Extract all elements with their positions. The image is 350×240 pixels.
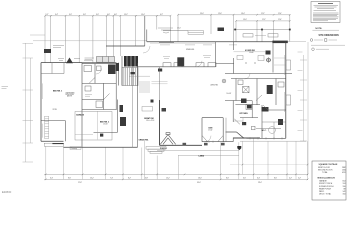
dark door tag left: [44, 49, 51, 53]
svg-text:NOTE:: NOTE:: [315, 28, 322, 30]
stair treads: [122, 68, 138, 86]
svg-text:6'-4": 6'-4": [257, 177, 260, 179]
garage parking rectangle: [75, 112, 112, 141]
svg-text:8'-2": 8'-2": [128, 177, 131, 179]
svg-text:4251: 4251: [342, 172, 346, 174]
den double east wall: [225, 118, 227, 142]
washer dryer units: [97, 57, 115, 63]
posts on south wall: [183, 143, 225, 146]
shower X: [243, 86, 249, 92]
newel post dark: [151, 100, 154, 103]
svg-text:15'-6": 15'-6": [218, 13, 222, 15]
svg-text:DECK / TOTAL: DECK / TOTAL: [319, 193, 331, 196]
porch steps: [146, 147, 166, 154]
svg-text:9'-4": 9'-4": [55, 14, 58, 16]
window seat rects: [142, 107, 153, 112]
storage room walls: [41, 121, 65, 142]
den label: [208, 128, 213, 132]
stoop: [44, 143, 63, 146]
svg-text:16'-4": 16'-4": [241, 13, 245, 15]
hall wall vertical: [138, 63, 216, 147]
lanai edge lines: [157, 151, 239, 156]
window label marks above north wall: [84, 59, 115, 61]
stair west wall: [121, 56, 123, 86]
left wing north wall: [41, 62, 82, 64]
left dimension line outer: [2, 35, 46, 162]
svg-text:W.I.C.: W.I.C.: [262, 130, 267, 132]
dark label above right wall: [272, 41, 287, 44]
note box header: [318, 3, 333, 5]
svg-text:E168 D: E168 D: [2, 190, 11, 194]
bedroom3 label: [53, 90, 62, 92]
bay bumps east: [286, 60, 291, 105]
den window ticks: [209, 141, 213, 143]
svg-text:GARAGE: GARAGE: [319, 180, 327, 183]
svg-text:PATIO: PATIO: [319, 190, 325, 193]
svg-text:KITCHEN: KITCHEN: [240, 113, 249, 115]
counter line nook: [256, 128, 281, 130]
master bedroom label: [245, 50, 256, 54]
svg-text:8'-6": 8'-6": [68, 177, 71, 179]
svg-text:24'-0": 24'-0": [200, 13, 204, 15]
dark tag 16A: [218, 28, 225, 32]
kitchen island dark: [242, 122, 246, 125]
fireplace: [160, 133, 175, 145]
master bath walls: [225, 79, 286, 139]
svg-text:STOR.: STOR.: [53, 109, 58, 111]
svg-text:DINING RM.: DINING RM.: [186, 49, 195, 51]
svg-text:12'-2": 12'-2": [166, 177, 170, 179]
svg-text:11'-2": 11'-2": [262, 19, 266, 21]
svg-text:BED RM. 3: BED RM. 3: [53, 90, 62, 92]
entry door dark segment: [159, 41, 174, 43]
svg-text:MISCELLANEOUS: MISCELLANEOUS: [318, 176, 336, 179]
right wing east wall: [285, 42, 287, 139]
svg-text:14'-0": 14'-0": [177, 28, 181, 30]
svg-text:28'-4": 28'-4": [258, 182, 262, 184]
svg-text:4'-2": 4'-2": [289, 177, 292, 179]
svg-text:GREAT RM.: GREAT RM.: [144, 117, 154, 120]
hall west wall double: [132, 67, 134, 148]
bottom dimension ticks: [45, 164, 308, 180]
front porch top structures: [234, 30, 290, 42]
bonus room label: [66, 92, 76, 97]
svg-text:TOTAL: TOTAL: [322, 171, 328, 174]
living-master divider wall: [233, 42, 235, 74]
master bedroom south wall line: [225, 73, 292, 75]
closet shelving: [262, 58, 286, 138]
butler wall: [240, 101, 258, 118]
section marker A5 dark: [237, 146, 241, 150]
garage east wall: [81, 63, 83, 148]
landing rail lines: [152, 82, 168, 84]
svg-text:SQUARE FOOTAGE: SQUARE FOOTAGE: [319, 163, 339, 166]
dark fixture near tray line: [266, 51, 271, 55]
bath hall cluster walls: [82, 63, 119, 110]
svg-text:5'-2": 5'-2": [46, 14, 49, 16]
closet dark blobs: [100, 105, 126, 137]
svg-text:21'-8": 21'-8": [78, 182, 82, 184]
svg-text:14'x16': 14'x16': [249, 52, 254, 54]
svg-text:9'-0": 9'-0": [69, 14, 72, 16]
top dimension tick marks: [44, 14, 290, 22]
closet wall top-left room: [41, 63, 64, 74]
svg-text:6'-4": 6'-4": [50, 177, 53, 179]
window labels under upper wall: [160, 45, 237, 58]
svg-text:12'x13': 12'x13': [103, 123, 108, 125]
svg-text:6'-2": 6'-2": [160, 14, 163, 16]
bedroom2 east wall: [94, 100, 118, 133]
svg-text:14'-0": 14'-0": [243, 19, 247, 21]
bottom dimension labels: [50, 177, 301, 184]
svg-text:SITE DIMENSIONS: SITE DIMENSIONS: [319, 35, 340, 37]
svg-text:11'x12': 11'x12': [208, 130, 213, 132]
svg-text:11'-4": 11'-4": [278, 19, 282, 21]
left wing south wall: [41, 141, 138, 147]
laundry north wall double: [82, 63, 116, 64]
entry recess: [145, 16, 188, 46]
south wall window ticks: [250, 137, 282, 139]
svg-text:PORCH: PORCH: [160, 148, 167, 150]
top dimension line left: [45, 15, 171, 17]
svg-text:11'-4": 11'-4": [278, 13, 282, 15]
svg-text:GARAGE: GARAGE: [76, 113, 85, 116]
right wing south wall with bay corner: [226, 132, 286, 138]
great room west wall: [159, 100, 161, 145]
laundry label marks: [58, 58, 94, 60]
svg-text:9'-0": 9'-0": [96, 14, 99, 16]
svg-text:10'-2": 10'-2": [90, 177, 94, 179]
main stair treads: [139, 82, 150, 92]
svg-text:LANAI: LANAI: [199, 154, 205, 157]
west wall window lines: [41, 83, 43, 137]
driveway label: [70, 147, 81, 150]
svg-text:LIVING RM.: LIVING RM.: [210, 85, 219, 87]
tray ceiling line master bedroom: [234, 51, 266, 53]
svg-text:DEN: DEN: [209, 128, 213, 130]
top dimension line right: [178, 15, 290, 21]
kitchen diagonal: [234, 119, 240, 125]
door arcs: [96, 46, 250, 142]
entry squiggle arrow: [163, 32, 169, 33]
main upper wall right of entry: [147, 41, 286, 43]
svg-text:14'-4": 14'-4": [141, 14, 145, 16]
bedroom2 label: [100, 121, 109, 125]
striped shaft left wing: [45, 116, 49, 138]
great room label: [144, 117, 154, 122]
dresser rects master suite: [237, 56, 264, 61]
svg-text:M. BED RM.: M. BED RM.: [245, 50, 256, 52]
svg-text:8'-0": 8'-0": [226, 177, 229, 179]
svg-text:4'-6": 4'-6": [114, 14, 117, 16]
svg-text:34'-0": 34'-0": [197, 182, 201, 184]
nook table: [269, 127, 276, 134]
ceiling cross marks: [245, 62, 256, 64]
stair block dark mass: [124, 56, 138, 67]
ceiling fan: [266, 58, 271, 63]
svg-text:8'-6": 8'-6": [274, 177, 277, 179]
center north wall: [106, 45, 145, 47]
top extension lines dropping to walls: [45, 15, 290, 63]
bath fixtures: [84, 66, 110, 108]
hall dark mark: [131, 72, 135, 74]
svg-text:7'-4": 7'-4": [110, 177, 113, 179]
bath labels: [85, 95, 92, 97]
center bottom wall: [160, 144, 203, 146]
tub dark right: [241, 99, 247, 104]
mbr closet divider: [272, 43, 274, 73]
legend row: [310, 39, 327, 42]
bottom dimension lines: [44, 141, 308, 179]
svg-text:11'-2": 11'-2": [261, 13, 265, 15]
svg-text:4'-6": 4'-6": [107, 14, 110, 16]
dark triangle door swing: [66, 58, 73, 64]
svg-text:REAR PORCH: REAR PORCH: [319, 187, 332, 190]
garage door dark band: [52, 143, 63, 145]
svg-text:GREAT RM.: GREAT RM.: [139, 138, 149, 141]
kitchen dark fixture: [247, 105, 252, 109]
dark mark hall south: [162, 108, 167, 112]
svg-text:5'-2": 5'-2": [298, 177, 301, 179]
long overhang line upper: [33, 40, 306, 43]
svg-text:9'-0": 9'-0": [83, 14, 86, 16]
svg-text:16'-0": 16'-0": [198, 177, 202, 179]
svg-text:16'x18': 16'x18': [227, 93, 232, 95]
top dimension labels: [46, 13, 283, 21]
svg-text:6'-8": 6'-8": [145, 177, 148, 179]
svg-text:310: 310: [343, 194, 346, 196]
svg-text:10'-2": 10'-2": [124, 14, 128, 16]
entry label marks: [158, 28, 173, 30]
living fan: [222, 79, 226, 83]
closet rects along hall wall: [163, 63, 216, 67]
bath fixtures right: [238, 80, 284, 87]
kitchen west wall: [216, 42, 235, 67]
door arcs bath hall: [256, 95, 268, 110]
porch rect above wall: [188, 31, 204, 35]
svg-text:6'-6": 6'-6": [243, 177, 246, 179]
left wing west wall: [40, 63, 42, 142]
closet tower dark: [178, 58, 185, 67]
kitchen cabinet lines: [233, 118, 243, 125]
svg-text:BED RM. 2: BED RM. 2: [100, 121, 109, 123]
den bay corners: [202, 136, 223, 142]
kitchen walls: [233, 101, 260, 142]
right dimension lines: [298, 42, 309, 174]
dark mark nw great room: [158, 69, 162, 72]
kitchen counters: [246, 104, 255, 129]
bottom extension lines: [46, 138, 308, 179]
tub dark: [108, 63, 119, 74]
den room walls: [202, 118, 233, 142]
svg-text:16'-0 x 19'-8: 16'-0 x 19'-8: [146, 120, 154, 122]
hall cross line: [129, 75, 150, 77]
